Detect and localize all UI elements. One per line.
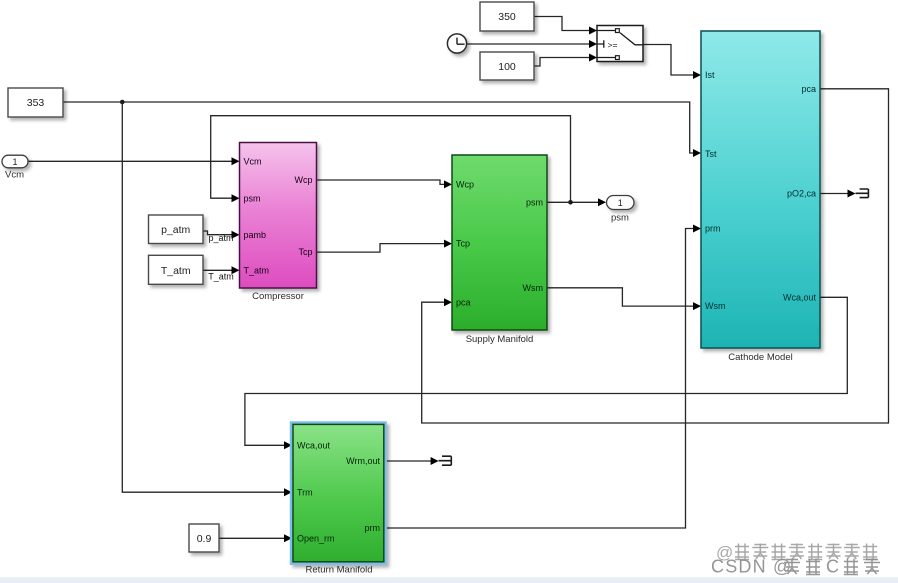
svg-text:Wca,out: Wca,out xyxy=(783,292,817,302)
svg-text:100: 100 xyxy=(498,61,516,73)
svg-text:p_atm: p_atm xyxy=(208,233,233,243)
inport Vcm xyxy=(2,155,28,168)
wire T_atm to compressor xyxy=(203,266,240,281)
outport psm xyxy=(607,196,635,210)
constant block T_atm xyxy=(149,255,204,284)
svg-text:>=: >= xyxy=(608,40,618,50)
svg-text:Cathode Model: Cathode Model xyxy=(728,352,792,363)
svg-text:Vcm: Vcm xyxy=(244,156,262,166)
wire prm feedback return manifold to cathode xyxy=(387,225,701,529)
wire 353 branch to Trm xyxy=(122,102,292,496)
svg-text:Trm: Trm xyxy=(297,487,313,497)
svg-text:pO2,ca: pO2,ca xyxy=(787,189,816,199)
svg-text:p_atm: p_atm xyxy=(161,224,190,236)
junction on psm wire xyxy=(568,200,573,205)
constant block 100 xyxy=(480,52,534,80)
wire Wcp compressor to supply manifold xyxy=(317,180,453,188)
svg-text:CSDN @: CSDN @ xyxy=(711,557,792,577)
constant block 350 xyxy=(480,2,534,31)
subsystem block Supply Manifold xyxy=(452,155,547,330)
wire psm feedback loop xyxy=(211,116,571,203)
svg-text:Tst: Tst xyxy=(705,149,717,159)
wire 100 to switch xyxy=(534,54,597,67)
wire pO2,ca to terminator xyxy=(820,190,856,198)
svg-text:psm: psm xyxy=(611,213,629,224)
svg-text:psm: psm xyxy=(526,197,543,207)
svg-text:Return Manifold: Return Manifold xyxy=(305,565,372,576)
svg-text:0.9: 0.9 xyxy=(197,533,212,545)
wire 350 to switch xyxy=(534,17,597,35)
constant block 353 xyxy=(8,88,63,117)
terminator T2 icon xyxy=(856,189,869,198)
svg-text:Wsm: Wsm xyxy=(523,283,544,293)
svg-text:C: C xyxy=(826,557,839,577)
selection highlight around Return Manifold xyxy=(290,421,387,565)
svg-text:Wsm: Wsm xyxy=(705,301,726,311)
svg-text:T_atm: T_atm xyxy=(208,272,234,282)
svg-text:Vcm: Vcm xyxy=(5,170,24,181)
svg-text:Tcp: Tcp xyxy=(298,247,312,257)
wire p_atm to pamb xyxy=(203,231,240,243)
svg-text:Open_rm: Open_rm xyxy=(297,533,335,543)
subsystem block Cathode Model xyxy=(701,31,820,348)
terminator T1 icon xyxy=(439,456,452,465)
svg-text:T_atm: T_atm xyxy=(244,265,270,275)
watermark line 1 xyxy=(716,543,877,562)
junction on 353 wire xyxy=(120,100,125,105)
wire psm output to outport xyxy=(547,198,606,206)
wire Wsm supply to cathode xyxy=(547,288,701,310)
svg-text:353: 353 xyxy=(27,97,45,109)
constant block 0.9 xyxy=(189,524,219,552)
svg-text:pca: pca xyxy=(456,297,471,307)
svg-text:1: 1 xyxy=(12,157,17,167)
svg-text:prm: prm xyxy=(365,523,381,533)
svg-text:1: 1 xyxy=(618,198,623,208)
watermark line 2 xyxy=(711,557,880,577)
svg-text:Wcp: Wcp xyxy=(456,180,474,190)
svg-text:pamb: pamb xyxy=(244,230,267,240)
subsystem block Compressor xyxy=(240,143,317,289)
svg-text:Compressor: Compressor xyxy=(252,291,304,302)
clock block xyxy=(447,34,466,53)
svg-text:Supply Manifold: Supply Manifold xyxy=(466,334,534,345)
wire pca feedback cathode to supply manifold xyxy=(422,89,889,423)
wire Tcp compressor to supply manifold xyxy=(317,240,453,253)
bottom page strip xyxy=(0,577,898,583)
svg-text:T_atm: T_atm xyxy=(161,265,191,277)
wire clock to switch xyxy=(467,40,597,48)
svg-text:Tcp: Tcp xyxy=(456,239,470,249)
wire 353 to Tst xyxy=(63,102,701,157)
svg-text:prm: prm xyxy=(705,224,721,234)
wire Vcm to compressor xyxy=(28,157,240,165)
svg-text:Wcp: Wcp xyxy=(295,175,313,185)
wire 0.9 to Open_rm xyxy=(219,534,292,542)
wire Wca,out cathode to return manifold xyxy=(245,297,847,449)
subsystem block Return Manifold xyxy=(293,424,384,561)
svg-text:pca: pca xyxy=(801,84,816,94)
svg-text:Wca,out: Wca,out xyxy=(297,441,331,451)
switch block U1 xyxy=(597,26,643,62)
svg-text:psm: psm xyxy=(244,193,261,203)
wire Wrm,out to terminator xyxy=(387,457,439,465)
constant block p_atm xyxy=(149,215,204,244)
svg-text:Ist: Ist xyxy=(705,70,715,80)
svg-text:Wrm,out: Wrm,out xyxy=(346,456,380,466)
svg-text:350: 350 xyxy=(498,11,516,23)
wire switch to Ist xyxy=(643,45,701,80)
